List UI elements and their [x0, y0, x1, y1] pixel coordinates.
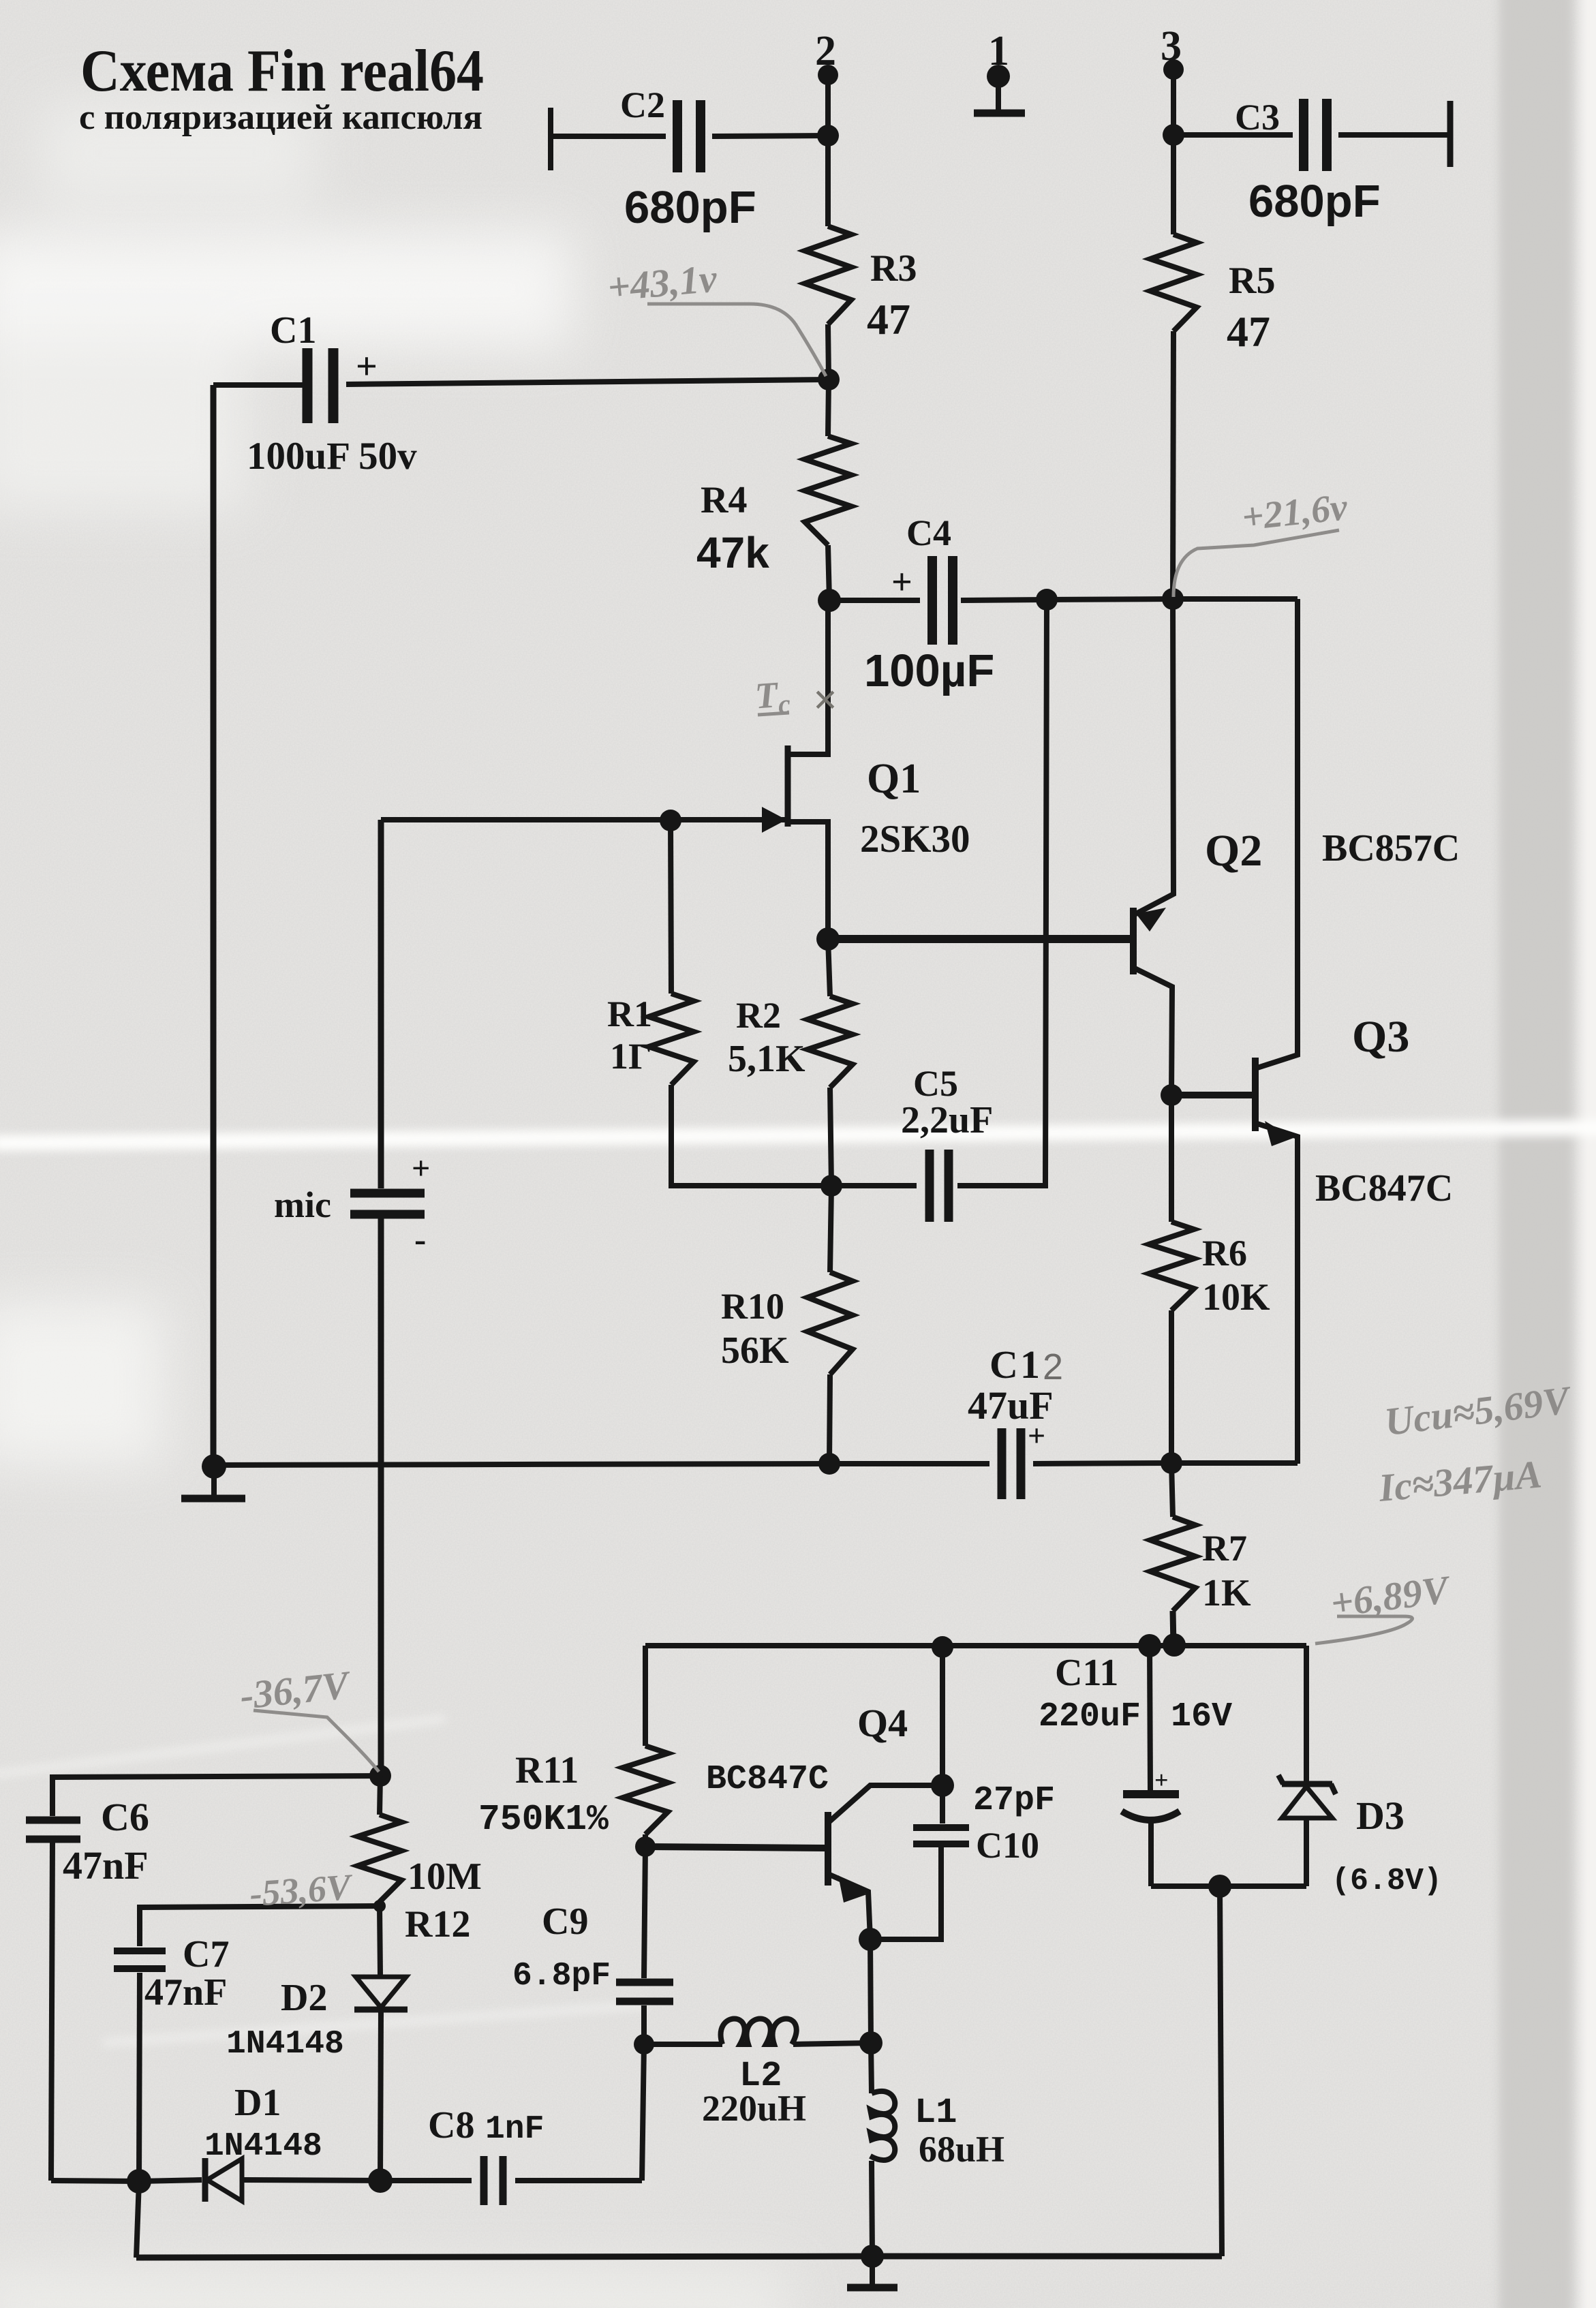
svg-text:R2: R2 — [736, 995, 781, 1036]
svg-text:2,2uF: 2,2uF — [901, 1099, 993, 1141]
resistor R6 — [1149, 1222, 1194, 1310]
wire L2 right lead — [793, 2043, 871, 2044]
resistor R10 — [808, 1272, 853, 1374]
wire C10 bottom lead — [870, 1845, 941, 1939]
wire Q3 emitter — [1255, 1123, 1298, 1464]
svg-text:C5: C5 — [913, 1063, 958, 1104]
wire Q4 base line — [645, 1847, 825, 1848]
junction R10 bottom/rail — [818, 1453, 840, 1475]
wire C1 left lead — [213, 382, 303, 388]
junction R7 bottom/rail — [1163, 1633, 1186, 1657]
svg-text:5,1K: 5,1K — [728, 1038, 805, 1080]
diode D2 — [356, 1977, 406, 2007]
svg-text:BC857C: BC857C — [1322, 827, 1460, 870]
wire Q2 base line — [828, 935, 1131, 943]
terminal bar C3 right — [1447, 101, 1454, 167]
wire C10 column top — [940, 1647, 945, 1785]
svg-text:C2: C2 — [620, 84, 665, 125]
wire node1 down — [996, 76, 1001, 111]
svg-text:-: - — [414, 1220, 426, 1259]
svg-text:C9: C9 — [542, 1901, 588, 1943]
junction D2/C8/bottom — [368, 2168, 393, 2193]
Q4 emitter arrow — [838, 1875, 867, 1903]
svg-text:Схема Fin real64: Схема Fin real64 — [80, 38, 484, 104]
junction Q2 collector/Q3 base/R6 — [1161, 1084, 1182, 1106]
junction C9/L2/C8 — [634, 2034, 654, 2055]
transistor Q4 base bar — [825, 1812, 831, 1886]
svg-text:C3: C3 — [1235, 97, 1280, 138]
node 1 terminal — [987, 65, 1010, 88]
wire C11 bottom lead — [1148, 1821, 1154, 1886]
wire C1 right lead — [346, 380, 829, 384]
wire mic bottom to R12 node — [378, 1214, 384, 1776]
ground symbol bottom — [847, 2284, 897, 2292]
wire node2 down — [825, 75, 831, 136]
wire Q2 collector — [1133, 968, 1172, 1094]
wire top rail c — [1047, 599, 1173, 600]
transistor Q3 base bar — [1252, 1058, 1259, 1131]
wire top rail a — [829, 598, 920, 603]
svg-text:R12: R12 — [405, 1903, 470, 1945]
svg-text:680pF: 680pF — [624, 182, 756, 233]
wire Q1 source — [788, 822, 828, 939]
capacitor C8 — [480, 2156, 488, 2205]
wire down to bottom rail — [136, 2181, 139, 2258]
wire D1 anode lead — [242, 2180, 380, 2181]
svg-text:Q2: Q2 — [1205, 826, 1262, 876]
svg-text:+: + — [356, 345, 378, 388]
wire Q1 gate — [381, 817, 785, 822]
svg-text:10M: 10M — [408, 1856, 482, 1898]
wire C3 right lead — [1338, 132, 1450, 138]
svg-text:+: + — [1028, 1418, 1045, 1453]
capacitor C4 — [927, 556, 937, 645]
Q1 gate arrow — [762, 807, 786, 833]
capacitor C6 — [26, 1817, 80, 1824]
svg-text:R11: R11 — [515, 1749, 579, 1791]
junction mic/R12/C6 — [369, 1765, 391, 1787]
junction R5 bottom — [1162, 588, 1184, 610]
wire R6 top lead — [1169, 1095, 1174, 1222]
capacitor C1 — [303, 348, 313, 423]
wire Q4 block top rail — [645, 1643, 1306, 1648]
resistor R7 — [1150, 1517, 1195, 1611]
svg-text:R4: R4 — [701, 479, 747, 521]
wire D3 bottom lead — [1304, 1818, 1309, 1886]
svg-text:27pF: 27pF — [973, 1781, 1055, 1820]
resistor R4 — [805, 436, 851, 545]
svg-text:C11: C11 — [1055, 1652, 1118, 1694]
capacitor C5 — [925, 1150, 934, 1222]
wire C8 left lead — [380, 2178, 472, 2183]
wire R4 to top rail — [828, 545, 829, 600]
wire R3 to node43 — [828, 324, 829, 380]
svg-text:2SK30: 2SK30 — [860, 818, 970, 861]
wire R10 top lead — [830, 1186, 831, 1272]
junction R11/Q4 base/C9 — [635, 1836, 656, 1857]
resistor R5 — [1150, 234, 1197, 331]
wire C9 top lead — [644, 1847, 645, 1978]
svg-text:BC847C: BC847C — [706, 1760, 829, 1799]
handwritten -36,7V — [238, 1662, 354, 1718]
svg-text:+: + — [891, 561, 912, 602]
mic capsule plates — [350, 1189, 425, 1198]
svg-text:47k: 47k — [696, 528, 769, 577]
Q2 emitter arrow — [1136, 908, 1166, 932]
svg-text:16V: 16V — [1171, 1697, 1232, 1736]
junction gate/R1 top — [660, 810, 681, 831]
wire ground rail d — [1171, 1460, 1298, 1466]
wire C3 left lead — [1173, 132, 1293, 138]
wire top rail b — [961, 600, 1047, 600]
wire bottom rail left — [136, 2256, 872, 2258]
wire R1 top lead — [671, 820, 671, 994]
handwritten +6,89V — [1328, 1567, 1454, 1625]
wire node43 to R4 — [828, 380, 829, 436]
handwritten Tc mark — [754, 673, 838, 724]
wire C5 right up to C4 — [957, 600, 1047, 1186]
svg-text:1nF: 1nF — [485, 2111, 544, 2148]
svg-text:mic: mic — [274, 1184, 331, 1225]
wire to C7 — [140, 1906, 380, 1946]
ground stub bottom — [870, 2256, 875, 2284]
resistor R11 — [623, 1746, 668, 1834]
svg-text:-53,6V: -53,6V — [248, 1866, 354, 1914]
wire D3 top lead — [1304, 1646, 1309, 1781]
wire node3 down — [1171, 70, 1176, 136]
capacitor C9 — [616, 1979, 673, 1986]
svg-text:BC847C: BC847C — [1315, 1167, 1453, 1210]
svg-text:R3: R3 — [870, 247, 917, 290]
junction node3/C3 — [1163, 124, 1184, 146]
svg-text:1: 1 — [988, 28, 1009, 74]
junction Q4 collector/C10 — [931, 1774, 954, 1797]
wire R7 top lead — [1171, 1463, 1173, 1517]
wire bottom left a — [51, 2181, 139, 2181]
svg-text:47nF: 47nF — [144, 1971, 227, 2014]
resistor R2 — [808, 996, 853, 1088]
wire L1 bottom lead — [872, 2161, 872, 2256]
handwritten -53,6V — [248, 1866, 354, 1914]
wire R2 top lead — [828, 939, 830, 996]
svg-text:(6.8V): (6.8V) — [1332, 1864, 1442, 1898]
svg-text:L1: L1 — [915, 2093, 957, 2133]
ground stub left — [211, 1466, 217, 1495]
svg-text:D1: D1 — [234, 2082, 281, 2124]
handwritten +21,6v — [1240, 486, 1350, 539]
svg-text:220uH: 220uH — [702, 2088, 806, 2129]
wire bottom rail right — [872, 2253, 1222, 2260]
junction R12/C7 — [373, 1900, 386, 1912]
wire mic top — [378, 820, 384, 1188]
node 3 terminal — [1163, 59, 1184, 80]
junction L2/L1/Q4 emitter — [859, 2031, 883, 2055]
svg-text:47: 47 — [1227, 307, 1270, 356]
node 2 terminal — [818, 65, 838, 85]
junction bottom ground — [861, 2245, 884, 2268]
wire C10 top lead — [940, 1785, 945, 1824]
wire R1 bottom to loop — [671, 1085, 831, 1186]
wire C7 bottom lead — [139, 1973, 140, 2181]
svg-text:C8: C8 — [428, 2104, 474, 2147]
svg-text:680pF: 680pF — [1248, 176, 1381, 227]
junction Q4 emitter/C10 bottom — [859, 1928, 882, 1951]
transistor Q1 channel bar — [785, 745, 791, 827]
capacitor C12 — [998, 1428, 1007, 1499]
wire R11 bottom lead — [643, 1834, 648, 1847]
wire R10 bottom lead — [829, 1374, 830, 1464]
wire emitter to L2 node — [870, 1939, 871, 2043]
wire R2 bottom lead — [830, 1088, 831, 1186]
handwritten Ucu=5,69V — [1382, 1377, 1574, 1444]
wire C6 bottom lead — [51, 1843, 52, 2181]
junction zener bottom node — [1208, 1875, 1231, 1898]
svg-text:47: 47 — [867, 295, 910, 343]
svg-text:1N4148: 1N4148 — [204, 2128, 322, 2165]
svg-text:10K: 10K — [1202, 1276, 1270, 1319]
wire R6 bottom lead — [1169, 1310, 1174, 1464]
wire C8 column — [642, 2044, 644, 2181]
svg-text:R5: R5 — [1229, 260, 1275, 302]
svg-text:+: + — [412, 1150, 430, 1186]
zener diode D3 — [1282, 1781, 1332, 1787]
svg-text:1K: 1K — [1202, 1572, 1251, 1614]
ground node 1 — [974, 110, 1025, 117]
wire Q4 emitter — [828, 1874, 870, 1939]
svg-text:100µF: 100µF — [864, 645, 994, 696]
capacitor C3 — [1299, 99, 1308, 171]
capacitor C10 — [913, 1824, 969, 1831]
svg-text:6.8pF: 6.8pF — [512, 1958, 611, 1995]
junction C10 top/rail — [932, 1636, 953, 1658]
svg-text:×: × — [812, 675, 837, 724]
resistor R12 — [358, 1815, 401, 1902]
svg-text:C7: C7 — [183, 1933, 229, 1975]
resistor R3 — [805, 226, 851, 324]
svg-text:1N4148: 1N4148 — [226, 2026, 344, 2063]
junction node2/C2 — [817, 125, 839, 147]
wire R5 to top rail — [1173, 331, 1173, 599]
junction R4/C4 — [818, 589, 841, 612]
svg-text:D3: D3 — [1356, 1794, 1405, 1838]
wire R7 bottom lead — [1173, 1611, 1173, 1646]
wire top rail d — [1173, 596, 1298, 602]
wire C9 bottom lead — [641, 2005, 647, 2044]
wire node to bottom rail — [1220, 1886, 1222, 2256]
inductor L1 — [870, 2091, 895, 2160]
wire R11 top lead — [643, 1646, 648, 1746]
wire C11 top lead — [1150, 1646, 1150, 1790]
svg-text:56K: 56K — [721, 1329, 789, 1372]
resistor R1 — [649, 994, 694, 1085]
wire left rail — [211, 385, 217, 1466]
svg-text:C10: C10 — [976, 1825, 1039, 1866]
junction R6/R7/C12 — [1161, 1452, 1182, 1474]
svg-text:+: + — [1154, 1766, 1169, 1794]
wire C11/D3 bottom link — [1151, 1883, 1306, 1889]
inductor L2 — [721, 2019, 797, 2045]
wire Q1 drain — [789, 600, 828, 754]
wire L1 top lead — [871, 2043, 872, 2093]
svg-text:Q4: Q4 — [857, 1701, 908, 1745]
terminal bar C2 left — [548, 108, 553, 170]
svg-text:2: 2 — [815, 28, 836, 74]
svg-text:Q3: Q3 — [1352, 1012, 1409, 1062]
wire Q4 collector — [828, 1785, 942, 1823]
svg-text:C6: C6 — [101, 1795, 149, 1839]
wire Q3 collector — [1255, 599, 1298, 1068]
wire C2 left lead — [551, 134, 666, 139]
wire D1 cathode lead — [139, 2180, 202, 2181]
junction left rail/ground — [202, 1454, 226, 1479]
wire ground rail b — [829, 1461, 989, 1466]
wire L2 left lead — [644, 2042, 722, 2047]
svg-text:2: 2 — [1043, 1347, 1063, 1387]
junction +43V node — [818, 369, 840, 390]
wire C5 left lead — [831, 1183, 917, 1188]
svg-text:C4: C4 — [906, 512, 951, 553]
svg-text:D2: D2 — [281, 1977, 327, 2019]
svg-text:220uF: 220uF — [1039, 1697, 1141, 1736]
ground symbol left — [181, 1495, 245, 1503]
wire to C6 — [52, 1776, 380, 1816]
svg-text:100uF 50v: 100uF 50v — [247, 435, 417, 478]
wire C8 right lead — [515, 2178, 642, 2183]
wire C2 right lead — [712, 136, 828, 136]
wire D2 top lead — [380, 1906, 380, 1975]
svg-text:1Г: 1Г — [610, 1036, 651, 1077]
transistor Q2 base bar — [1130, 908, 1137, 974]
capacitor C11 electrolytic — [1123, 1790, 1179, 1798]
handwritten +43,1v — [606, 256, 720, 309]
capacitor C2 — [673, 100, 682, 172]
title text — [79, 38, 484, 137]
wire D2 bottom lead — [380, 2010, 381, 2181]
svg-text:R1: R1 — [607, 994, 652, 1034]
wire Q2 emitter — [1133, 599, 1173, 915]
svg-text:R7: R7 — [1202, 1528, 1247, 1569]
svg-text:3: 3 — [1161, 23, 1182, 70]
capacitor C7 — [114, 1948, 166, 1954]
junction Q1 source/R2/Q2 base — [816, 927, 840, 951]
svg-text:47nF: 47nF — [63, 1843, 149, 1888]
svg-text:R10: R10 — [721, 1286, 784, 1327]
wire node2 to R3 — [825, 136, 831, 226]
svg-text:C: C — [989, 1342, 1018, 1387]
svg-text:R6: R6 — [1202, 1233, 1247, 1274]
wire node3 to R5 — [1171, 135, 1176, 234]
Q3 emitter arrow — [1265, 1121, 1293, 1146]
wire ground rail a — [214, 1464, 829, 1465]
wire ground rail c — [1033, 1463, 1171, 1464]
handwritten Ic=347uA — [1377, 1451, 1544, 1510]
junction C11 top/rail — [1138, 1634, 1161, 1657]
svg-text:1: 1 — [1020, 1342, 1040, 1387]
junction R1/R2/C5 — [820, 1175, 842, 1197]
svg-text:C1: C1 — [270, 309, 316, 352]
svg-text:Q1: Q1 — [867, 756, 921, 802]
svg-text:с поляризацией капсюля: с поляризацией капсюля — [79, 98, 482, 137]
svg-text:68uH: 68uH — [919, 2129, 1004, 2170]
svg-text:750K1%: 750K1% — [478, 1799, 609, 1840]
wire Q3 base line — [1171, 1092, 1253, 1098]
wire R12 top lead — [380, 1776, 380, 1815]
junction C7/D1/bottom — [127, 2169, 151, 2194]
junction C4/C5 column — [1036, 589, 1058, 611]
diode D1 — [202, 2158, 209, 2202]
